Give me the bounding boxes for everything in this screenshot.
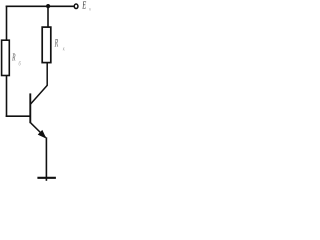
wire: top supply rail bbox=[6, 5, 75, 7]
svg-text:к: к bbox=[89, 7, 91, 13]
wire: left vertical from rail to Rb top bbox=[6, 6, 8, 41]
node: junction dot on supply rail bbox=[46, 4, 50, 8]
resistor Rk (right, collector resistor) bbox=[42, 27, 51, 63]
resistor Rb (left, base resistor) bbox=[2, 40, 10, 75]
wire: left vertical from Rb bottom to base wire bbox=[6, 76, 8, 118]
wire: vertical from node dot to Rk top bbox=[47, 6, 49, 28]
wire: emitter vertical to ground bbox=[45, 137, 47, 181]
terminal: supply terminal circle bbox=[74, 4, 78, 9]
svg-text:E: E bbox=[82, 0, 87, 12]
svg-text:к: к bbox=[63, 46, 65, 52]
svg-text:б: б bbox=[19, 61, 22, 68]
transistor VT1: collector diagonal bbox=[31, 85, 48, 104]
transistor VT1: base bar bbox=[29, 93, 31, 123]
ground symbol bbox=[37, 177, 56, 179]
wire: horizontal base wire bbox=[6, 115, 31, 117]
transistor VT1: emitter arrowhead bbox=[38, 131, 45, 138]
wire: collector vertical from Rk bottom to diagonal bbox=[46, 63, 48, 86]
svg-text:R: R bbox=[12, 51, 16, 63]
transistor VT1: emitter diagonal bbox=[31, 123, 46, 138]
svg-text:R: R bbox=[54, 37, 58, 49]
